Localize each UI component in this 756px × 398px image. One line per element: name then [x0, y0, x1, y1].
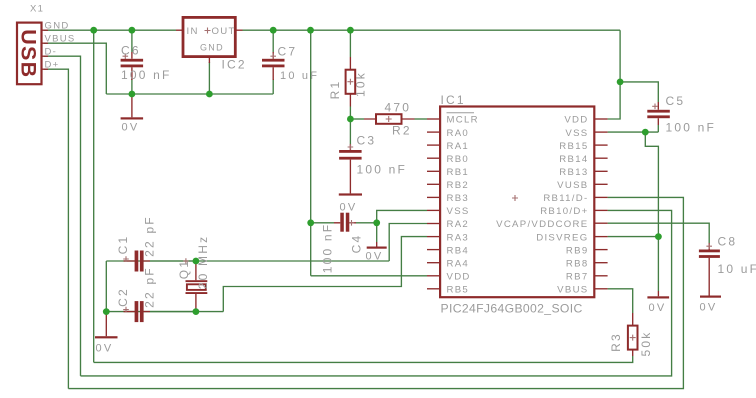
pin stub RB7 [594, 275, 607, 277]
svg-text:VDD: VDD [564, 115, 588, 126]
value 20 MHz rotated [196, 235, 210, 290]
node VSS right C5 bottom [642, 129, 649, 136]
value 50k rotated [639, 331, 653, 357]
svg-text:C2: C2 [116, 287, 130, 307]
svg-text:RB7: RB7 [566, 272, 589, 283]
wire R2 left lead to node [350, 118, 364, 120]
pin stub DISVREG [594, 236, 607, 238]
wire VDD right pin route to rail corner [608, 30, 621, 119]
svg-text:50k: 50k [639, 331, 653, 357]
svg-text:R2: R2 [392, 124, 412, 138]
svg-text:VDD: VDD [447, 272, 471, 283]
wire crystal bottom row [106, 311, 223, 313]
svg-text:C4: C4 [350, 234, 364, 254]
value 100 nF (C3) [357, 163, 408, 177]
label C2 rotated [116, 287, 130, 307]
pin name RB8 [566, 258, 589, 269]
pin name VUSB [557, 180, 588, 191]
pin stub MCLR [427, 118, 440, 120]
wire C7 top connection [272, 30, 274, 52]
pin name RB0 [447, 154, 470, 165]
pin name RB11/D- [543, 193, 588, 204]
pin stub RB15 [594, 144, 607, 146]
pin name RA0 [447, 128, 470, 139]
svg-text:GND: GND [45, 21, 70, 32]
pin name VDD left [447, 272, 471, 283]
svg-text:DISVREG: DISVREG [536, 232, 588, 243]
value 10k [354, 71, 368, 97]
pin label D+ [45, 60, 60, 71]
pin name RA4 [447, 258, 470, 269]
node C6 top [129, 27, 136, 34]
label IC2 [222, 58, 247, 72]
label Q1 rotated [177, 259, 191, 279]
label C5 [666, 94, 686, 108]
IC U1 PIC24FJ64GB002 [440, 107, 594, 298]
wire VSS right pin to C5 bottom node [608, 131, 659, 133]
wire R1 bottom to node [349, 107, 351, 120]
wire C5 bottom lead [657, 125, 659, 132]
value 100 nF (C6) [121, 68, 172, 82]
capacitor C3 [339, 144, 362, 166]
svg-text:C6: C6 [121, 44, 141, 58]
capacitor C4 [311, 213, 377, 232]
wire ground rail under IC2 [106, 93, 273, 95]
pin name DISVREG [536, 232, 588, 243]
label R3 rotated [609, 332, 623, 352]
label X1 [30, 4, 44, 15]
pin name RB9 [566, 245, 589, 256]
pin stub RB10 [594, 209, 607, 211]
svg-text:RA1: RA1 [447, 141, 470, 152]
svg-text:PIC24FJ64GB002_SOIC: PIC24FJ64GB002_SOIC [441, 302, 583, 316]
capacitor C2 [123, 301, 196, 322]
wire VSS left pin to C4 right node [377, 210, 427, 222]
svg-text:10 uF: 10 uF [280, 70, 319, 82]
capacitor C1 [123, 251, 196, 272]
wire C4 right node to ground symbol [376, 223, 378, 242]
pin name VDD right [564, 115, 588, 126]
svg-text:C7: C7 [278, 45, 298, 59]
node C4 left [307, 219, 314, 226]
pin stub RB3 [427, 196, 440, 198]
svg-text:RB14: RB14 [559, 154, 588, 165]
svg-text:RB13: RB13 [559, 167, 588, 178]
svg-text:R1: R1 [328, 80, 342, 100]
svg-text:VSS: VSS [447, 206, 470, 217]
svg-text:IC2: IC2 [222, 58, 247, 72]
svg-text:RA4: RA4 [447, 258, 470, 269]
svg-text:22 pF: 22 pF [143, 215, 157, 257]
svg-text:VCAP/VDDCORE: VCAP/VDDCORE [496, 219, 588, 230]
pin stub VSS left [427, 209, 440, 211]
ground 0V below C8 [700, 266, 722, 314]
svg-text:RB9: RB9 [566, 245, 589, 256]
node R1 R2 C3 [347, 116, 354, 123]
pin name RA3 [447, 232, 470, 243]
resistor R1 [346, 57, 356, 107]
node crystal bottom [193, 308, 200, 315]
wire C6 top connection [131, 30, 133, 52]
wire RB11/D- pin route to bottom rail [68, 197, 683, 388]
wire RA2 pin to crystal top row [389, 224, 427, 262]
value 100 nF (C4) rotated [321, 223, 335, 274]
ground 0V below C6 [121, 94, 144, 134]
label C3 [357, 134, 377, 148]
svg-text:0V: 0V [649, 302, 667, 314]
node R1 top [347, 27, 354, 34]
wire regulator output 3.3V rail [243, 29, 621, 31]
pin stub VDD right [594, 118, 607, 120]
label R2 [392, 124, 412, 138]
node GND rail / drop [90, 27, 97, 34]
pin stub RB4 [427, 249, 440, 251]
node IC2 GND rail [206, 91, 213, 98]
svg-text:470: 470 [385, 101, 412, 115]
wire 3.3V vertical through C4 left node [310, 30, 312, 276]
svg-text:100 nF: 100 nF [121, 68, 172, 82]
pin stub RB14 [594, 157, 607, 159]
pin name VSS left [447, 206, 470, 217]
value 22 pF (C2) rotated [143, 266, 157, 308]
svg-text:RB5: RB5 [447, 285, 470, 296]
wire D- from USB down to bottom rail [44, 56, 81, 376]
pin name VBUS right [557, 285, 588, 296]
pin stub RB13 [594, 170, 607, 172]
svg-text:IC1: IC1 [441, 93, 466, 107]
node DISVREG ground [655, 233, 662, 240]
pin stub RB2 [427, 183, 440, 185]
svg-text:100 nF: 100 nF [357, 163, 408, 177]
voltage regulator IC2 [176, 17, 243, 63]
svg-text:C1: C1 [116, 235, 130, 255]
pin stub RA3 [427, 236, 440, 238]
value 470 [385, 101, 412, 115]
wire IC2 GND to ground rail [208, 62, 210, 94]
svg-text:C3: C3 [357, 134, 377, 148]
node crystal top [193, 258, 200, 265]
resistor R3 [628, 313, 638, 356]
pin stub RA1 [427, 144, 440, 146]
wire R2 right to MCLR pin [415, 118, 428, 120]
svg-text:RB2: RB2 [447, 180, 470, 191]
pin name RB5 [447, 285, 470, 296]
svg-text:D-: D- [45, 47, 58, 58]
node C6 bottom rail [129, 91, 136, 98]
capacitor C6 [121, 52, 144, 80]
ground 0V below C2 node [95, 312, 118, 355]
svg-text:C8: C8 [718, 235, 738, 249]
wire C3 top connection [349, 119, 351, 144]
value 22 pF (C1) rotated [143, 215, 157, 257]
svg-text:R3: R3 [609, 332, 623, 352]
pin name VCAP/VDDCORE [496, 219, 588, 230]
svg-text:MCLR: MCLR [447, 115, 479, 126]
svg-text:0V: 0V [366, 251, 384, 263]
wire R1 top connection [349, 30, 351, 57]
pin name RB3 [447, 193, 470, 204]
wire D+ from USB down to bottom rail [44, 69, 68, 388]
pin stub RB11 [594, 196, 607, 198]
value 10 uF (C7) [280, 70, 319, 82]
pin name RB2 [447, 180, 470, 191]
svg-text:0V: 0V [122, 122, 140, 134]
ground 0V below DISVREG vertical [647, 291, 669, 314]
svg-text:X1: X1 [30, 4, 44, 15]
label IC1 [441, 93, 466, 107]
wire VBUS right pin to R3 top [608, 289, 633, 313]
capacitor C8 [699, 243, 720, 266]
wire VBUS from USB down to ground rail [44, 43, 106, 94]
label C1 rotated [116, 235, 130, 255]
svg-text:RB1: RB1 [447, 167, 470, 178]
node 3.3V vertical top [307, 27, 314, 34]
node C7 top [270, 27, 277, 34]
svg-text:OUT: OUT [212, 26, 236, 37]
pin name RB14 [559, 154, 588, 165]
label C6 [121, 44, 141, 58]
pin stub VCAP [594, 222, 607, 224]
pin label GND [45, 21, 70, 32]
value 100 nF (C5) [666, 121, 717, 135]
svg-text:0V: 0V [96, 343, 114, 355]
svg-text:IN: IN [187, 26, 199, 37]
wire C7 bottom to ground rail [272, 79, 274, 94]
wire VDD left pin to 3.3V vertical [311, 275, 427, 277]
label C7 [278, 45, 298, 59]
pin stub RA2 [427, 223, 440, 225]
svg-text:10k: 10k [354, 71, 368, 97]
pin stub RB5 [427, 288, 440, 290]
wire C1 C2 left side vertical [105, 261, 107, 312]
svg-text:100 nF: 100 nF [321, 223, 335, 274]
value PIC24FJ64GB002_SOIC [441, 302, 583, 316]
value 10 uF (C8) [718, 262, 756, 276]
label C8 [718, 235, 738, 249]
pin stub RA4 [427, 262, 440, 264]
svg-text:VBUS: VBUS [557, 285, 588, 296]
svg-text:VBUS: VBUS [45, 34, 76, 45]
pin stub RA0 [427, 131, 440, 133]
pin stub RB1 [427, 170, 440, 172]
wire jog from VSS node down to DISVREG vertical [645, 132, 658, 291]
label R1 [328, 80, 342, 100]
crystal Q1 [183, 258, 207, 311]
wire GND net top rail left [44, 29, 176, 31]
wire crystal top row [106, 260, 389, 262]
ground 0V below C4 [366, 242, 387, 263]
pin stub RB9 [594, 249, 607, 251]
pin stub VSS right [594, 131, 607, 133]
node C2 left ground [103, 308, 110, 315]
pin name VSS right [565, 128, 588, 139]
pin name RA2 [447, 219, 470, 230]
svg-text:RA0: RA0 [447, 128, 470, 139]
wire VDD node to C5 top [620, 82, 658, 102]
svg-text:RB10/D+: RB10/D+ [540, 206, 588, 217]
svg-text:RB3: RB3 [447, 193, 470, 204]
wire R3 bottom to GND rail A [94, 356, 633, 362]
svg-text:0V: 0V [700, 302, 718, 314]
ground 0V below C3 [339, 166, 362, 214]
pin name RB1 [447, 167, 470, 178]
node C4 right [373, 219, 380, 226]
connector X1 USB [17, 23, 49, 85]
svg-text:RB15: RB15 [559, 141, 588, 152]
svg-text:GND: GND [200, 43, 224, 53]
svg-text:100 nF: 100 nF [666, 121, 717, 135]
svg-text:VUSB: VUSB [557, 180, 588, 191]
pin name RA1 [447, 141, 470, 152]
svg-text:USB: USB [17, 29, 41, 78]
capacitor C5 [647, 102, 670, 125]
pin stub VUSB [594, 183, 607, 185]
svg-text:Q1: Q1 [177, 259, 191, 279]
pin name RB7 [566, 272, 589, 283]
pin stub VBUS right [594, 288, 607, 290]
wire C6 bottom connection [131, 79, 133, 94]
pin name MCLR with overline [447, 113, 479, 126]
wire VCAP pin to C8 [608, 223, 710, 243]
svg-text:RB4: RB4 [447, 245, 470, 256]
pin name RB13 [559, 167, 588, 178]
wire RB10/D+ pin route to bottom rail [81, 210, 672, 376]
pin label D- [45, 47, 58, 58]
label C4 rotated [350, 234, 364, 254]
svg-text:22 pF: 22 pF [143, 266, 157, 308]
svg-text:10 uF: 10 uF [718, 262, 756, 276]
svg-text:RB11/D-: RB11/D- [543, 193, 588, 204]
svg-text:RA2: RA2 [447, 219, 470, 230]
svg-text:RA3: RA3 [447, 232, 470, 243]
svg-text:0V: 0V [340, 202, 358, 214]
pin name RB10/D+ [540, 206, 588, 217]
wire GND long vertical drop from USB [93, 30, 95, 362]
node VDD right C5 [617, 79, 624, 86]
pin label VBUS [45, 34, 76, 45]
capacitor C7 [262, 52, 285, 80]
pin name RB4 [447, 245, 470, 256]
wire DISVREG pin to ground vertical [608, 236, 659, 238]
wire RA3 pin route to crystal bottom [223, 237, 427, 312]
pin stub VDD left [427, 275, 440, 277]
svg-text:RB0: RB0 [447, 154, 470, 165]
pin name RB15 [559, 141, 588, 152]
svg-text:C5: C5 [666, 94, 686, 108]
pin stub RB0 [427, 157, 440, 159]
pin stub RB8 [594, 262, 607, 264]
svg-text:VSS: VSS [565, 128, 588, 139]
svg-text:D+: D+ [45, 60, 60, 71]
svg-text:RB8: RB8 [566, 258, 589, 269]
resistor R2 [364, 114, 415, 124]
